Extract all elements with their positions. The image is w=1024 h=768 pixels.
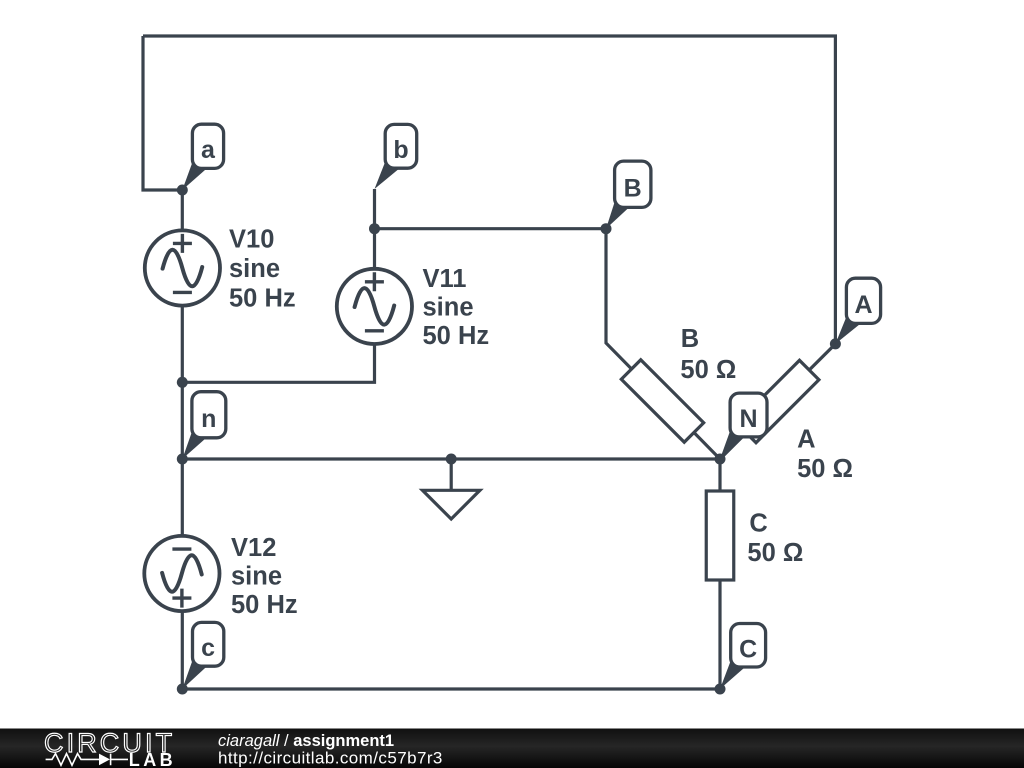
svg-text:http://circuitlab.com/c57b7r3: http://circuitlab.com/c57b7r3: [218, 748, 443, 767]
svg-text:A: A: [854, 291, 872, 319]
svg-text:C: C: [749, 510, 767, 538]
svg-text:n: n: [201, 405, 216, 433]
svg-text:sine: sine: [229, 255, 280, 283]
svg-text:V12: V12: [231, 534, 276, 562]
svg-text:V11: V11: [423, 265, 467, 293]
svg-text:50 Ω: 50 Ω: [797, 455, 853, 483]
svg-text:ciaragall / assignment1: ciaragall / assignment1: [218, 732, 394, 750]
svg-text:50 Ω: 50 Ω: [680, 356, 736, 384]
svg-text:c: c: [201, 634, 215, 662]
svg-text:N: N: [739, 405, 757, 433]
svg-text:LAB: LAB: [129, 750, 176, 768]
svg-text:B: B: [624, 175, 642, 203]
svg-text:sine: sine: [231, 563, 282, 591]
svg-text:B: B: [681, 325, 699, 353]
svg-text:50 Hz: 50 Hz: [231, 591, 298, 619]
svg-text:A: A: [797, 426, 815, 454]
svg-text:a: a: [201, 136, 216, 164]
svg-text:b: b: [393, 136, 408, 164]
svg-text:50 Hz: 50 Hz: [423, 322, 490, 350]
svg-text:V10: V10: [229, 225, 274, 253]
svg-text:50 Hz: 50 Hz: [229, 284, 296, 312]
svg-text:sine: sine: [423, 294, 474, 322]
svg-text:50 Ω: 50 Ω: [747, 539, 803, 567]
svg-text:C: C: [739, 636, 757, 664]
